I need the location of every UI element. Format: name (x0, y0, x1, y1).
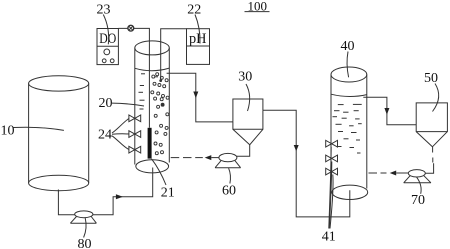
liquid surface in column 40 (331, 94, 367, 96)
svg-text:24: 24 (98, 128, 112, 143)
leaders of 41 (329, 147, 331, 229)
label 22 (187, 3, 201, 18)
svg-text:70: 70 (411, 193, 425, 208)
leader of 20 (112, 103, 144, 106)
leader of 30 (246, 84, 250, 111)
label 20 (99, 96, 113, 111)
label 23 (97, 3, 111, 18)
label 70 (411, 193, 425, 208)
arrow down on col40 outlet (384, 108, 389, 115)
pipe vessel30 to column40 (long) (263, 110, 350, 217)
pH meter box 22 (187, 29, 210, 65)
label 10 (1, 124, 15, 139)
pipe vessel30 to pump60 (237, 145, 250, 157)
dashed stem vessel50 to pump70 (432, 147, 434, 163)
bubbles in column 20 (151, 73, 169, 155)
liquid dashes in column 20 (139, 74, 159, 109)
label 100 (248, 0, 268, 14)
pump 80 (70, 211, 96, 223)
svg-text:20: 20 (99, 96, 113, 111)
leaders of 24 (112, 119, 129, 133)
arrow right on feed pipe (116, 194, 123, 199)
svg-text:21: 21 (161, 186, 175, 201)
svg-text:DO: DO (99, 31, 116, 47)
label 41 (322, 230, 336, 245)
svg-text:10: 10 (1, 124, 15, 139)
leader of 70 (417, 177, 421, 194)
pH probe wire (161, 29, 187, 80)
leader of 60 (229, 168, 231, 183)
leader of 50 (433, 84, 439, 112)
underline of 100 (245, 11, 270, 13)
label 40 (341, 39, 355, 54)
vessel 30 (233, 99, 263, 145)
label 30 (238, 70, 252, 85)
column 40 body (331, 67, 368, 200)
outlet pipe column20 to vessel30 with corner (167, 73, 233, 122)
valves 41 (three) (326, 140, 338, 175)
svg-text:41: 41 (322, 230, 336, 245)
leader of 22 (195, 15, 200, 44)
leader of 40 (347, 52, 349, 78)
label 21 (161, 186, 175, 201)
leader of 21 (152, 159, 167, 185)
leader of 23 (103, 15, 108, 45)
arrow left on dashed return (205, 155, 212, 160)
label 24 (98, 128, 112, 143)
liquid dashes in column 40 (333, 104, 362, 153)
pump 60 (215, 153, 241, 167)
inline sensor on DO wire (128, 25, 134, 31)
svg-text:30: 30 (238, 70, 252, 85)
pump 70 (404, 170, 431, 183)
tank 10 (29, 76, 89, 191)
svg-text:60: 60 (222, 184, 236, 199)
dashed return pump60 to column20 (171, 157, 219, 159)
electrode bar 21 (148, 128, 152, 159)
label 60 (222, 184, 236, 199)
pipe tank10 to pump80 (58, 190, 74, 215)
leader of 80 (84, 218, 87, 238)
outlet pipe column40 to vessel50 (363, 97, 416, 125)
DO wire to probe (118, 28, 149, 127)
label 80 (78, 237, 92, 249)
svg-text:pH: pH (189, 31, 207, 47)
arrow down on long pipe (294, 145, 299, 151)
svg-text:22: 22 (187, 3, 201, 18)
label 50 (424, 71, 438, 86)
arrow left on dashed return 70 (390, 171, 397, 176)
arrow down on outlet (193, 92, 198, 99)
DO meter box 23 (97, 29, 118, 65)
pipe into pump 70 (425, 163, 433, 173)
dashed return pump70 to column40 (369, 172, 409, 174)
liquid surface in column 20 (135, 68, 169, 71)
pH probe tip (159, 79, 162, 82)
svg-text:50: 50 (424, 71, 438, 86)
leader of 10 (14, 127, 64, 130)
pipe pump80 to column20 bottom (93, 168, 153, 215)
column 20 body (135, 41, 170, 173)
valves 24 (three) (129, 115, 141, 153)
svg-text:80: 80 (78, 237, 92, 249)
vessel 50 (416, 103, 447, 147)
